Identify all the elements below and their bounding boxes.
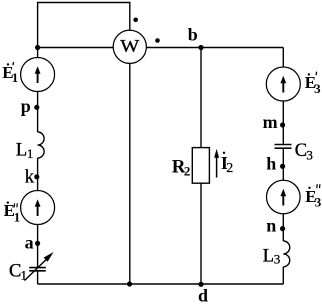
node p bbox=[21, 96, 40, 116]
svg-text:C: C bbox=[295, 141, 307, 161]
node b bbox=[188, 24, 204, 50]
label L1 bbox=[16, 140, 34, 160]
label E3' bbox=[305, 72, 321, 96]
node k bbox=[25, 167, 40, 188]
wire: left rail from junction down to E1' top bbox=[37, 48, 39, 58]
wire: top-right corner down to E3' top bbox=[282, 48, 284, 68]
svg-text:p: p bbox=[21, 96, 31, 116]
label C3 bbox=[295, 141, 313, 162]
label I2 bbox=[221, 152, 233, 176]
wire: main row left segment (left rail junction to W left terminal) bbox=[38, 47, 114, 49]
wire: E1'' bottom to C1 top plate (through node a) bbox=[37, 225, 39, 268]
label E1' bbox=[2, 62, 18, 85]
wire: C1 bottom plate to bottom wire bbox=[37, 271, 39, 284]
svg-text:d: d bbox=[198, 286, 208, 304]
label C1 bbox=[9, 261, 27, 282]
label E3'' bbox=[305, 184, 322, 209]
wire: wattmeter voltage-coil loop (left rail top to W top terminal) bbox=[38, 3, 130, 48]
wire: node b down to R2 top bbox=[200, 48, 202, 148]
label R2 bbox=[172, 157, 191, 179]
svg-text:1: 1 bbox=[12, 70, 18, 85]
wire: E3' bottom to C3 top plate (through node m) bbox=[282, 101, 284, 144]
wire: main row right segment (W right terminal to top-right corner) bbox=[146, 47, 283, 49]
svg-text:L: L bbox=[16, 140, 27, 160]
svg-text:L: L bbox=[263, 246, 274, 266]
wire: E3'' bottom to L3 top (through node n) bbox=[282, 214, 284, 241]
svg-text:C: C bbox=[9, 261, 21, 281]
junction dot (W branch at bottom wire) bbox=[127, 281, 132, 286]
wire: R2 bottom down to node d bbox=[200, 183, 202, 284]
source E1' bbox=[21, 58, 55, 92]
wattmeter polarity dot (top) bbox=[133, 18, 138, 23]
svg-text:1: 1 bbox=[14, 210, 21, 225]
wire: E1' bottom to L1 top (through node p) bbox=[37, 92, 39, 133]
svg-text:2: 2 bbox=[184, 163, 191, 178]
svg-text:n: n bbox=[266, 216, 276, 236]
node h bbox=[266, 154, 285, 174]
svg-text:3: 3 bbox=[315, 194, 322, 209]
label E1'' bbox=[4, 201, 21, 225]
wire: W bottom terminal down to bottom wire bbox=[129, 63, 131, 284]
svg-text:m: m bbox=[263, 112, 278, 132]
label L3 bbox=[263, 246, 281, 266]
svg-text:a: a bbox=[25, 232, 34, 252]
svg-text:h: h bbox=[266, 154, 276, 174]
node a bbox=[25, 232, 41, 252]
source E3'' bbox=[267, 180, 301, 214]
inductor L1 bbox=[38, 132, 45, 158]
source E1'' bbox=[21, 191, 55, 225]
wattmeter W bbox=[113, 30, 146, 63]
svg-text:1: 1 bbox=[27, 146, 34, 161]
junction dot (left rail at main row) bbox=[35, 45, 40, 50]
svg-text:3: 3 bbox=[306, 147, 313, 162]
wire: bottom wire bbox=[38, 283, 284, 285]
capacitor C3 bbox=[275, 145, 292, 149]
source E3' bbox=[266, 67, 300, 101]
capacitor C1 (variable) bbox=[25, 252, 54, 281]
svg-text:3: 3 bbox=[314, 81, 321, 96]
svg-text:W: W bbox=[120, 36, 140, 56]
wire: L1 bottom to E1'' top (through node k) bbox=[37, 158, 39, 191]
svg-text:3: 3 bbox=[274, 252, 281, 267]
node m bbox=[263, 112, 286, 132]
svg-text:1: 1 bbox=[21, 267, 28, 282]
svg-text:b: b bbox=[188, 24, 198, 44]
inductor L3 bbox=[283, 241, 289, 267]
node n bbox=[266, 216, 285, 236]
node d bbox=[198, 282, 208, 304]
resistor R2 bbox=[192, 148, 209, 184]
wattmeter polarity dot (right) bbox=[155, 38, 160, 43]
svg-text:2: 2 bbox=[226, 161, 233, 176]
wire: L3 bottom to bottom-right corner bbox=[282, 267, 284, 284]
current arrow I2 bbox=[214, 149, 219, 178]
svg-text:k: k bbox=[25, 167, 35, 188]
wire: C3 bottom plate to E3'' top (through node h) bbox=[282, 149, 284, 180]
